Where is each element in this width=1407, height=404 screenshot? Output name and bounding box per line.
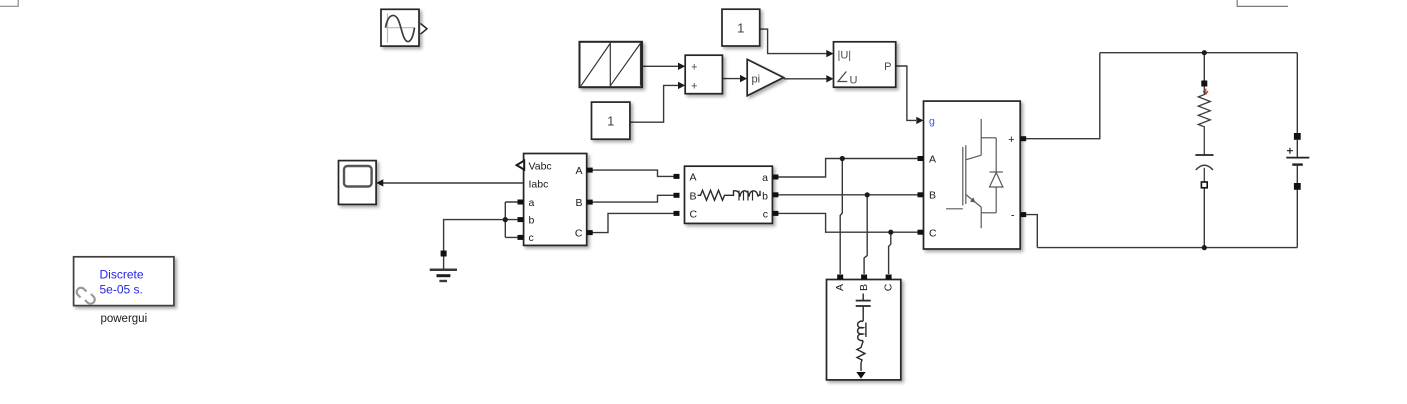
- arrow into sum top: [678, 63, 685, 70]
- port b square: [518, 217, 524, 222]
- broken link icon: [77, 288, 95, 304]
- svg-text:B: B: [575, 197, 582, 209]
- arrow into absU: [826, 50, 833, 57]
- powergui block: [74, 257, 174, 325]
- sum block: [685, 55, 722, 93]
- port minus square: [1020, 212, 1026, 217]
- wire bridge plus to top: [1025, 53, 1100, 139]
- top port square: [1201, 81, 1207, 87]
- wire sum to gain: [722, 78, 740, 80]
- svg-text:P: P: [884, 61, 891, 73]
- IGBT icon: [946, 119, 1003, 228]
- svg-text:A: A: [929, 154, 936, 166]
- port a square: [772, 175, 778, 180]
- IGBT emitter arrowhead: [970, 197, 976, 202]
- node C dot: [888, 230, 893, 235]
- sine wave source block: [381, 9, 427, 46]
- svg-text:C: C: [929, 227, 937, 239]
- svg-text:-: -: [1011, 210, 1015, 222]
- three-phase series RLC load block (rotated): [827, 275, 901, 380]
- svg-text:pi: pi: [752, 73, 761, 85]
- port C square: [674, 211, 680, 216]
- gain block pi: [747, 59, 783, 95]
- svg-text:+: +: [691, 61, 697, 73]
- svg-text:a: a: [762, 172, 768, 184]
- capacitor plate: [1195, 154, 1213, 156]
- Vabc output port arrow: [517, 161, 525, 170]
- svg-text:Vabc: Vabc: [529, 161, 552, 173]
- complex to magnitude-angle block U1: [834, 42, 896, 87]
- WIRES-GROUP: [381, 29, 1297, 274]
- svg-text:c: c: [763, 208, 768, 220]
- port c square: [518, 235, 524, 240]
- short plate: [1292, 163, 1303, 165]
- branch icon inductor: [728, 191, 761, 197]
- node top-rail dot: [1202, 50, 1207, 55]
- junction node dots: [503, 50, 1207, 250]
- wire Iabc to scope: [381, 182, 524, 184]
- svg-text:+: +: [1008, 134, 1014, 146]
- wire VI-C to branch C: [592, 213, 674, 232]
- port B square: [918, 192, 924, 197]
- svg-text:5e-05 s.: 5e-05 s.: [100, 283, 143, 297]
- svg-text:Discrete: Discrete: [100, 268, 144, 282]
- port a square: [518, 200, 524, 205]
- svg-text:A: A: [690, 171, 697, 183]
- wire battery top: [1296, 53, 1298, 134]
- three-phase series RLC branch block: [674, 166, 779, 223]
- bottom port square open: [1201, 182, 1207, 188]
- wire P to g: [896, 66, 916, 120]
- long plate: [1286, 157, 1309, 159]
- constant C1 (top) value 1: [722, 9, 760, 46]
- port C square: [886, 275, 892, 280]
- bottom port square: [1294, 183, 1301, 190]
- port A square: [918, 156, 924, 161]
- svg-text:C: C: [575, 228, 583, 240]
- svg-text:b: b: [529, 214, 535, 226]
- node A dot: [840, 156, 845, 161]
- port B square: [861, 275, 867, 280]
- load ground arrow: [856, 372, 865, 379]
- resistor: [1198, 87, 1210, 156]
- wire branch a to bridge A: [778, 159, 918, 178]
- wire node C to load C: [889, 232, 891, 274]
- port B square: [587, 200, 593, 205]
- port b square: [772, 192, 778, 197]
- port plus square: [1020, 136, 1026, 141]
- node B dot: [865, 192, 870, 197]
- wire bus to ground: [444, 220, 506, 251]
- wire node B to load B: [864, 195, 867, 274]
- svg-text:c: c: [529, 232, 534, 244]
- arrow into angleU: [826, 75, 833, 82]
- svg-text:C: C: [690, 208, 698, 220]
- wire rlc branch top: [1203, 53, 1205, 81]
- svg-text:U: U: [850, 74, 858, 86]
- wire sawtooth to sum: [642, 65, 679, 67]
- DC voltage source battery: [1286, 133, 1309, 190]
- red current arrow: [1203, 89, 1208, 95]
- branch icon resistor: [698, 190, 728, 200]
- svg-text:C: C: [883, 283, 895, 291]
- svg-text:|U|: |U|: [838, 49, 852, 61]
- wire node A to load A: [840, 159, 842, 275]
- svg-text:g: g: [929, 116, 935, 128]
- svg-text:1: 1: [737, 21, 744, 36]
- arrow into g: [916, 117, 923, 124]
- node bottom-rail dot: [1202, 245, 1207, 250]
- wire arrowheads: [376, 50, 923, 187]
- svg-text:powergui: powergui: [100, 313, 147, 325]
- arrow into gain: [740, 75, 747, 82]
- arrow into sum bottom: [678, 82, 685, 89]
- svg-text:Iabc: Iabc: [529, 178, 549, 190]
- cutoff block corner top right: [1237, 0, 1288, 6]
- load icon chain: [856, 294, 871, 372]
- wire abc bus: [505, 202, 518, 237]
- node abc-bus dot: [503, 217, 508, 222]
- wire bottom rail: [1037, 247, 1297, 249]
- top port square: [1294, 133, 1301, 140]
- series RLC branch (vertical, R-C): [1195, 81, 1213, 188]
- svg-text:B: B: [690, 190, 697, 202]
- port B square: [674, 193, 680, 198]
- svg-text:1: 1: [607, 114, 614, 129]
- wire rlc branch bottom: [1203, 188, 1205, 248]
- port c square: [772, 211, 778, 216]
- svg-text:A: A: [575, 165, 582, 177]
- wire bridge minus to bottom: [1025, 215, 1037, 248]
- repeating sequence (sawtooth) block: [580, 42, 643, 87]
- wire battery bottom: [1296, 190, 1298, 248]
- wire branch c to bridge C: [778, 213, 918, 232]
- port A square: [587, 168, 593, 173]
- IGBT bridge block: [918, 101, 1027, 249]
- three-phase V-I measurement block: [517, 154, 593, 246]
- wire gain to angleU: [784, 78, 828, 80]
- wire top rail: [1100, 52, 1298, 54]
- port A square: [837, 275, 843, 280]
- port C square: [918, 230, 924, 235]
- plus sign: [1287, 148, 1293, 154]
- svg-text:B: B: [858, 284, 870, 291]
- wire constant2 to sum: [630, 85, 679, 122]
- svg-text:A: A: [834, 284, 846, 291]
- scope block: [339, 161, 377, 205]
- wire branch b to bridge B: [778, 194, 918, 196]
- capacitor curved plate: [1196, 165, 1213, 170]
- svg-text:+: +: [691, 80, 697, 92]
- constant C2 (bottom) value 1: [592, 102, 630, 139]
- wire constant1 to absU: [760, 29, 827, 53]
- port C square: [587, 230, 593, 235]
- ground block: [430, 251, 457, 282]
- svg-text:B: B: [929, 190, 936, 202]
- port A square: [674, 174, 680, 179]
- arrow into scope: [376, 179, 383, 186]
- svg-text:a: a: [529, 197, 535, 209]
- wire VI-B to branch B: [592, 195, 674, 202]
- cutoff block corner top left: [0, 0, 18, 6]
- svg-text:b: b: [762, 190, 768, 202]
- wire VI-A to branch A: [592, 170, 674, 176]
